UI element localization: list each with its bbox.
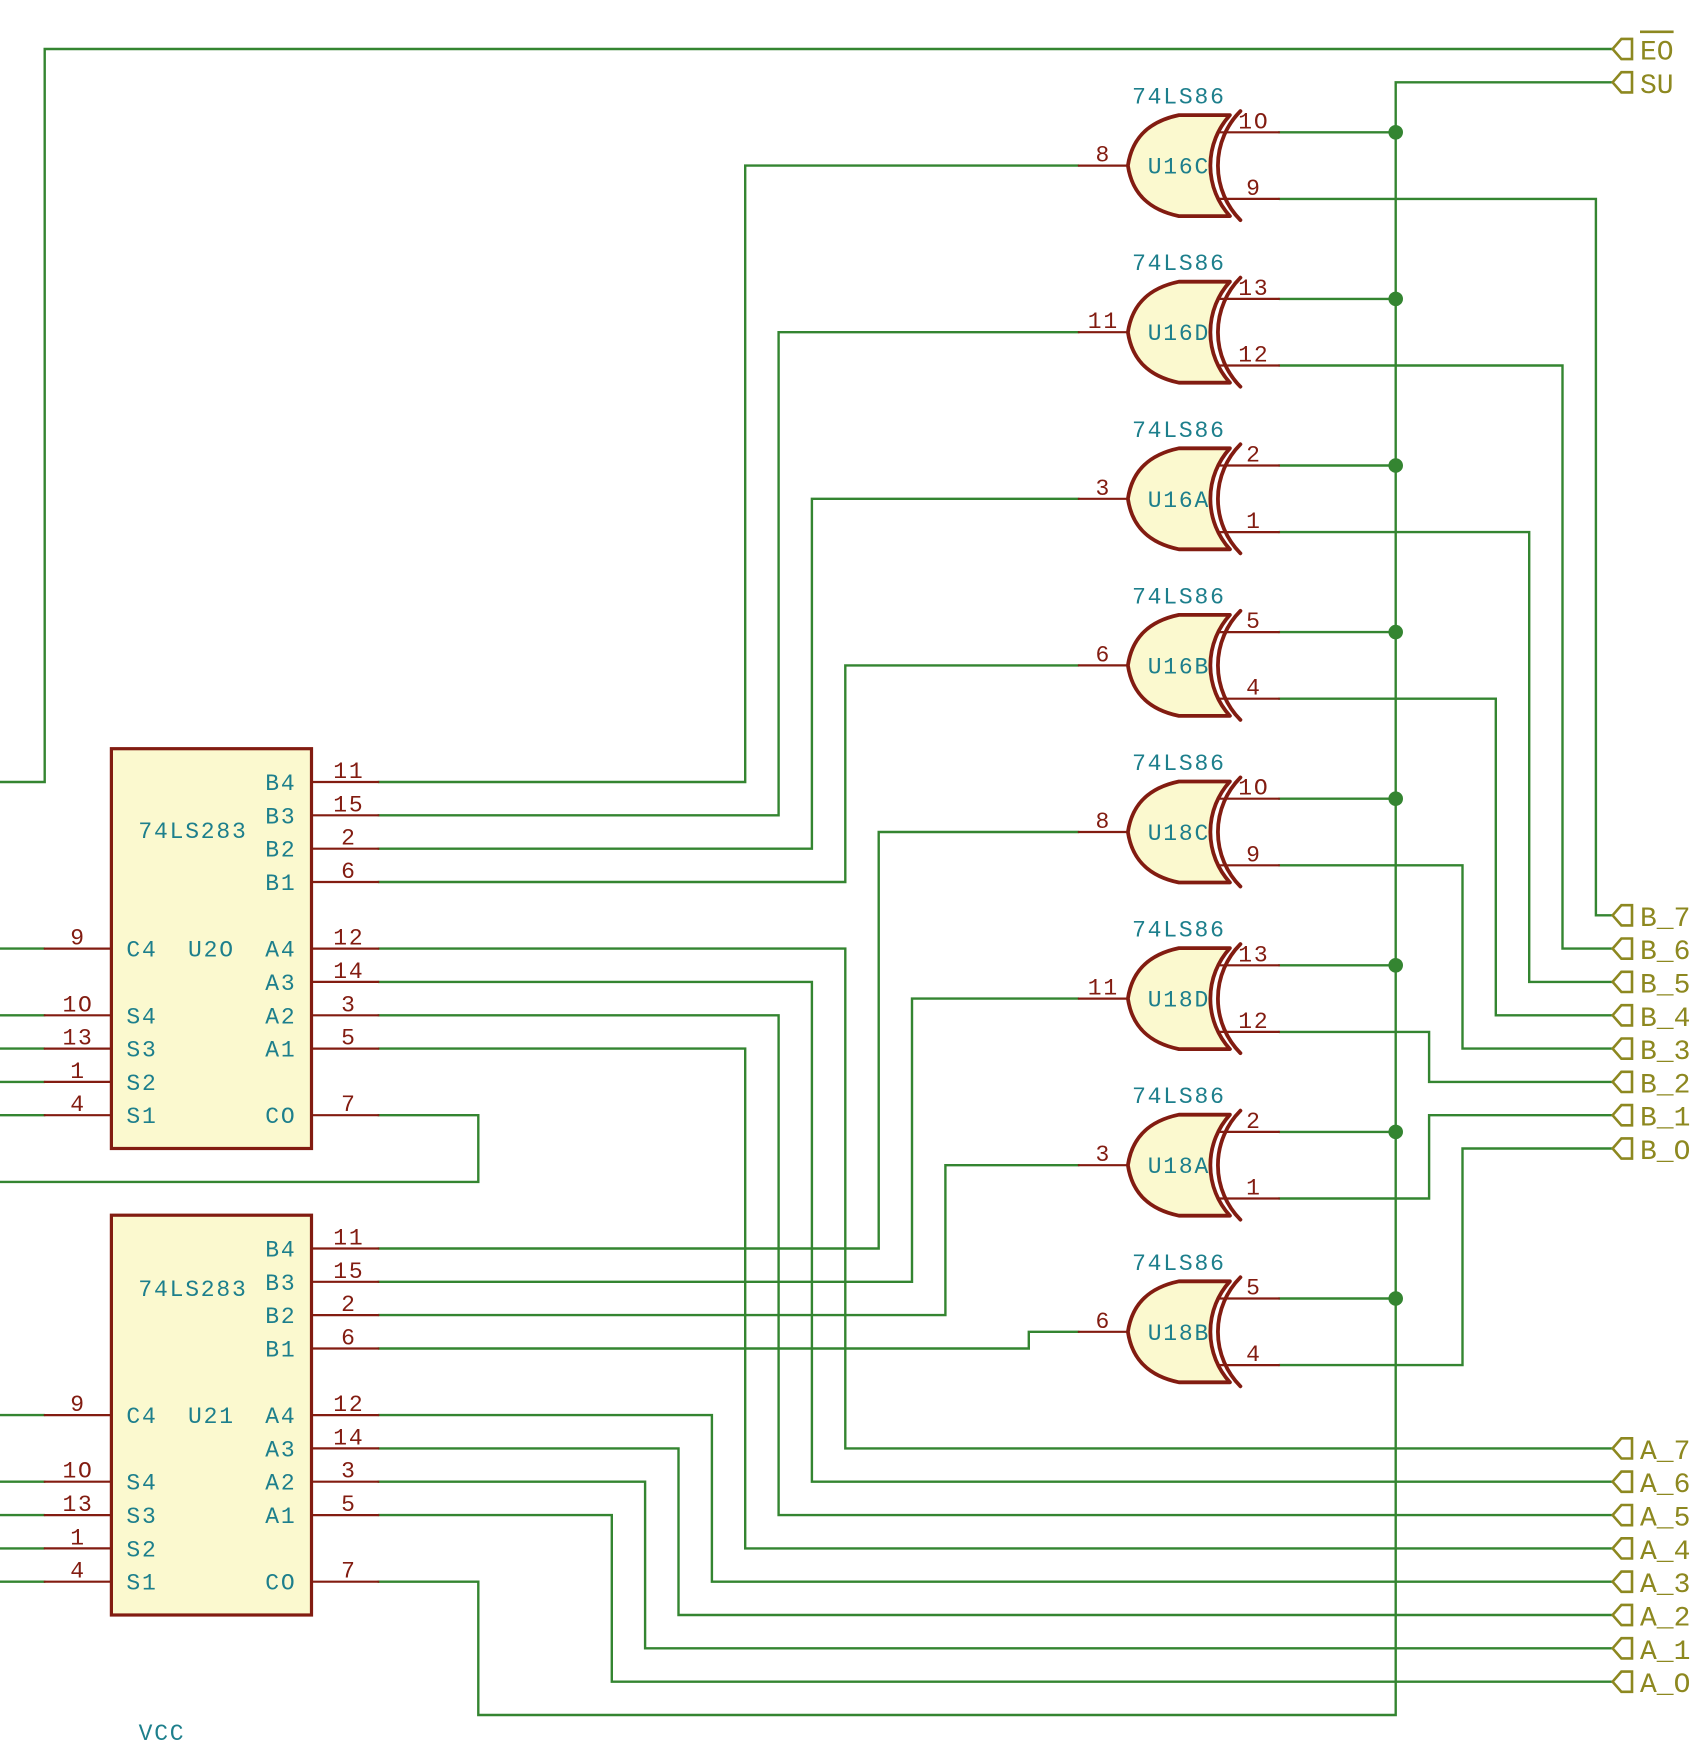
wire XOR U18B output to U21.B1: [378, 1332, 1079, 1349]
svg-text:74LS283: 74LS283: [138, 1277, 247, 1303]
wire U18C top input to SU bus: [1279, 798, 1396, 800]
svg-text:74LS86: 74LS86: [1132, 584, 1226, 610]
junction SU bus at U16B: [1388, 625, 1403, 640]
wire B_2 net: [1279, 1032, 1613, 1082]
svg-text:3: 3: [341, 1459, 357, 1485]
svg-text:9: 9: [70, 926, 86, 952]
svg-text:2: 2: [341, 1292, 357, 1318]
pin U21.B4 (11): [265, 1226, 378, 1264]
svg-text:6: 6: [1096, 1309, 1112, 1335]
wire A_4 net: [378, 1049, 1612, 1549]
wire U20.S1 to left edge: [0, 1114, 45, 1116]
pin U20.B4 (11): [265, 759, 378, 797]
svg-text:B3: B3: [265, 804, 296, 830]
svg-text:3: 3: [1096, 1142, 1112, 1168]
svg-text:U18A: U18A: [1148, 1154, 1210, 1180]
svg-text:CO: CO: [265, 1104, 296, 1130]
pin U20.A3 (14): [265, 959, 378, 997]
hierarchical label B_7: [1613, 904, 1691, 935]
svg-text:1O: 1O: [1238, 109, 1269, 135]
pin U21.S2 (1): [45, 1525, 158, 1563]
XOR gate U18B 74LS86: [1079, 1251, 1279, 1387]
wire U20.C0 loop to left edge: [0, 1115, 478, 1182]
wire A_3 net: [378, 1415, 1612, 1582]
svg-text:1O: 1O: [1238, 776, 1269, 802]
svg-text:S4: S4: [126, 1471, 157, 1497]
svg-text:74LS86: 74LS86: [1132, 85, 1226, 111]
svg-text:B2: B2: [265, 1304, 296, 1330]
wire U16D top input to SU bus: [1279, 298, 1396, 300]
hierarchical label A_4: [1613, 1537, 1691, 1568]
svg-text:A4: A4: [265, 938, 296, 964]
svg-text:S2: S2: [126, 1537, 157, 1563]
svg-text:74LS86: 74LS86: [1132, 1251, 1226, 1277]
wire U21.S1 to left edge: [0, 1580, 45, 1582]
pin U20.B2 (2): [265, 826, 378, 864]
svg-text:A_4: A_4: [1640, 1537, 1690, 1568]
svg-text:B1: B1: [265, 871, 296, 897]
svg-text:1: 1: [70, 1525, 86, 1551]
svg-text:B_2: B_2: [1640, 1070, 1690, 1101]
junction SU bus at U18C: [1388, 791, 1403, 806]
pin U20.B3 (15): [265, 792, 378, 830]
svg-text:A_7: A_7: [1640, 1437, 1690, 1468]
svg-text:1O: 1O: [62, 1459, 93, 1485]
svg-text:U16C: U16C: [1148, 155, 1210, 181]
svg-text:B2: B2: [265, 838, 296, 864]
svg-text:S3: S3: [126, 1504, 157, 1530]
svg-text:A2: A2: [265, 1004, 296, 1030]
wire U21.S4 to left edge: [0, 1480, 45, 1482]
svg-text:14: 14: [333, 1425, 364, 1451]
svg-text:74LS86: 74LS86: [1132, 251, 1226, 277]
svg-text:A2: A2: [265, 1471, 296, 1497]
svg-text:B_5: B_5: [1640, 970, 1690, 1001]
wire XOR output to U20.B2: [378, 499, 1079, 849]
svg-text:A4: A4: [265, 1404, 296, 1430]
svg-text:74LS86: 74LS86: [1132, 918, 1226, 944]
wire U20.S3 to left edge: [0, 1047, 45, 1049]
wire B_3 net: [1279, 865, 1613, 1048]
pin U20.B1 (6): [265, 859, 378, 897]
wire U18D top input to SU bus: [1279, 964, 1396, 966]
wire U18A top input to SU bus: [1279, 1131, 1396, 1133]
svg-text:5: 5: [341, 1492, 357, 1518]
hierarchical label B_1: [1613, 1104, 1691, 1135]
wire B_1 net: [1279, 1115, 1613, 1198]
wire A_6 net: [378, 982, 1612, 1482]
hierarchical label A_2: [1613, 1604, 1691, 1635]
junction SU bus at U16D: [1388, 292, 1403, 307]
svg-text:B_1: B_1: [1640, 1104, 1690, 1135]
svg-text:B_3: B_3: [1640, 1037, 1690, 1068]
wire U21.S2 to left edge: [0, 1547, 45, 1549]
svg-text:4: 4: [1246, 676, 1262, 702]
svg-text:B_6: B_6: [1640, 937, 1690, 968]
svg-text:74LS86: 74LS86: [1132, 418, 1226, 444]
svg-text:U21: U21: [188, 1404, 235, 1430]
svg-text:S3: S3: [126, 1038, 157, 1064]
svg-text:5: 5: [1246, 609, 1262, 635]
svg-text:9: 9: [1246, 176, 1262, 202]
svg-text:1: 1: [1246, 1176, 1262, 1202]
svg-text:11: 11: [1088, 309, 1119, 335]
XOR gate U16D 74LS86: [1079, 251, 1279, 387]
wire A_0 net: [378, 1515, 1612, 1682]
IC U20 74LS283 4-bit adder: [111, 749, 311, 1149]
svg-text:B4: B4: [265, 771, 296, 797]
pin U21.C0 (7): [265, 1559, 378, 1597]
svg-text:A1: A1: [265, 1504, 296, 1530]
hierarchical label A_6: [1613, 1470, 1691, 1501]
hierarchical label A_5: [1613, 1504, 1691, 1535]
svg-text:5: 5: [1246, 1276, 1262, 1302]
hierarchical label B_0: [1613, 1137, 1691, 1168]
svg-text:2: 2: [341, 826, 357, 852]
svg-text:4: 4: [1246, 1342, 1262, 1368]
hierarchical label EO: [1613, 32, 1674, 69]
svg-text:CO: CO: [265, 1571, 296, 1597]
svg-text:4: 4: [70, 1092, 86, 1118]
pin U20.A4 (12): [265, 926, 378, 964]
svg-text:2: 2: [1246, 1109, 1262, 1135]
pin U20.C4 (9): [45, 926, 158, 964]
XOR gate U16A 74LS86: [1079, 418, 1279, 554]
wire B_6 net: [1279, 366, 1613, 949]
wire B_5 net: [1279, 532, 1613, 982]
svg-text:12: 12: [1238, 343, 1269, 369]
svg-text:12: 12: [1238, 1009, 1269, 1035]
junction SU bus at U18B: [1388, 1291, 1403, 1306]
pin U21.B3 (15): [265, 1259, 378, 1297]
pin U21.A4 (12): [265, 1392, 378, 1430]
wire XOR output to U21.B4: [378, 832, 1079, 1249]
svg-text:6: 6: [1096, 642, 1112, 668]
pin U21.A3 (14): [265, 1425, 378, 1463]
svg-text:U2O: U2O: [188, 938, 235, 964]
svg-text:9: 9: [70, 1392, 86, 1418]
svg-text:SU: SU: [1640, 71, 1674, 102]
XOR gate U16C 74LS86: [1079, 85, 1279, 221]
hierarchical label B_3: [1613, 1037, 1691, 1068]
svg-text:1: 1: [1246, 509, 1262, 535]
svg-text:B3: B3: [265, 1271, 296, 1297]
wire EO net: [0, 49, 1613, 782]
hierarchical label B_2: [1613, 1070, 1691, 1101]
svg-text:11: 11: [1088, 976, 1119, 1002]
wire B_4 net: [1279, 699, 1613, 1016]
wire A_1 net: [378, 1482, 1612, 1649]
svg-text:B1: B1: [265, 1338, 296, 1364]
svg-text:S4: S4: [126, 1004, 157, 1030]
wire XOR output to U20.B4: [378, 166, 1079, 782]
svg-text:1: 1: [70, 1059, 86, 1085]
svg-text:A_3: A_3: [1640, 1570, 1690, 1601]
wire U20.S2 to left edge: [0, 1081, 45, 1083]
svg-text:S1: S1: [126, 1104, 157, 1130]
svg-text:6: 6: [341, 859, 357, 885]
pin U20.S1 (4): [45, 1092, 158, 1130]
svg-text:U18D: U18D: [1148, 988, 1210, 1014]
XOR gate U18D 74LS86: [1079, 918, 1279, 1054]
wire SU net vertical bus: [378, 82, 1612, 1715]
XOR gate U18A 74LS86: [1079, 1084, 1279, 1220]
svg-text:EO: EO: [1640, 38, 1674, 69]
pin U21.S1 (4): [45, 1559, 158, 1597]
pin U21.B1 (6): [265, 1326, 378, 1364]
IC U21 74LS283 4-bit adder: [111, 1215, 311, 1615]
hierarchical label A_7: [1613, 1437, 1691, 1468]
pin U21.S4 (10): [45, 1459, 158, 1497]
pin U20.S2 (1): [45, 1059, 158, 1097]
svg-text:VCC: VCC: [139, 1721, 186, 1744]
svg-text:13: 13: [1238, 276, 1269, 302]
svg-text:13: 13: [62, 1026, 93, 1052]
svg-text:3: 3: [341, 992, 357, 1018]
wire A_7 net: [378, 949, 1612, 1449]
pin U20.A1 (5): [265, 1026, 378, 1064]
svg-text:8: 8: [1096, 809, 1112, 835]
svg-text:14: 14: [333, 959, 364, 985]
junction SU bus at U18D: [1388, 958, 1403, 973]
wire U16C top input to SU bus: [1279, 131, 1396, 133]
svg-text:A_5: A_5: [1640, 1504, 1690, 1535]
svg-text:A_6: A_6: [1640, 1470, 1690, 1501]
junction SU bus at U18A: [1388, 1125, 1403, 1140]
svg-text:A_O: A_O: [1640, 1670, 1690, 1701]
svg-text:A3: A3: [265, 971, 296, 997]
svg-text:74LS86: 74LS86: [1132, 1084, 1226, 1110]
wire A_2 net: [378, 1448, 1612, 1615]
pin U20.A2 (3): [265, 992, 378, 1030]
svg-text:U16A: U16A: [1148, 488, 1210, 514]
wire XOR output to U21.B2: [378, 1165, 1079, 1315]
hierarchical label B_5: [1613, 970, 1691, 1001]
hierarchical label A_3: [1613, 1570, 1691, 1601]
junction SU bus at U16C: [1388, 125, 1403, 140]
wire U16B top input to SU bus: [1279, 631, 1396, 633]
svg-text:15: 15: [333, 792, 364, 818]
wire XOR output to U20.B1: [378, 665, 1079, 882]
svg-text:B4: B4: [265, 1238, 296, 1264]
svg-text:15: 15: [333, 1259, 364, 1285]
svg-text:3: 3: [1096, 476, 1112, 502]
svg-text:S1: S1: [126, 1571, 157, 1597]
hierarchical label A_0: [1613, 1670, 1691, 1701]
svg-text:A1: A1: [265, 1038, 296, 1064]
svg-text:74LS86: 74LS86: [1132, 751, 1226, 777]
junction SU bus at U16A: [1388, 458, 1403, 473]
svg-text:5: 5: [341, 1026, 357, 1052]
wire B_0 net: [1279, 1149, 1613, 1366]
svg-text:11: 11: [333, 1226, 364, 1252]
svg-text:13: 13: [62, 1492, 93, 1518]
svg-text:12: 12: [333, 926, 364, 952]
svg-text:B_O: B_O: [1640, 1137, 1690, 1168]
svg-text:A3: A3: [265, 1437, 296, 1463]
svg-text:6: 6: [341, 1326, 357, 1352]
svg-text:4: 4: [70, 1559, 86, 1585]
pin U20.C0 (7): [265, 1092, 378, 1130]
wire U21.S3 to left edge: [0, 1514, 45, 1516]
pin U21.S3 (13): [45, 1492, 158, 1530]
pin U21.A2 (3): [265, 1459, 378, 1497]
svg-text:U16B: U16B: [1148, 654, 1210, 680]
svg-text:U16D: U16D: [1148, 321, 1210, 347]
svg-text:13: 13: [1238, 942, 1269, 968]
hierarchical label A_1: [1613, 1637, 1691, 1668]
svg-text:U18C: U18C: [1148, 821, 1210, 847]
svg-text:S2: S2: [126, 1071, 157, 1097]
svg-text:11: 11: [333, 759, 364, 785]
hierarchical label SU: [1613, 71, 1674, 102]
svg-text:9: 9: [1246, 842, 1262, 868]
svg-text:2: 2: [1246, 443, 1262, 469]
hierarchical label B_4: [1613, 1004, 1691, 1035]
wire U16A top input to SU bus: [1279, 464, 1396, 466]
wire XOR output to U21.B3: [378, 999, 1079, 1282]
XOR gate U16B 74LS86: [1079, 584, 1279, 720]
svg-text:74LS283: 74LS283: [138, 819, 247, 845]
pin U21.A1 (5): [265, 1492, 378, 1530]
wire U20.S4 to left edge: [0, 1014, 45, 1016]
hierarchical label B_6: [1613, 937, 1691, 968]
pin U21.B2 (2): [265, 1292, 378, 1330]
svg-text:A_2: A_2: [1640, 1604, 1690, 1635]
svg-text:12: 12: [333, 1392, 364, 1418]
svg-text:C4: C4: [126, 938, 157, 964]
wire U18B top input to SU bus: [1279, 1297, 1396, 1299]
svg-text:1O: 1O: [62, 992, 93, 1018]
svg-text:B_4: B_4: [1640, 1004, 1690, 1035]
svg-text:7: 7: [341, 1092, 357, 1118]
pin U20.S3 (13): [45, 1026, 158, 1064]
wire XOR output to U20.B3: [378, 332, 1079, 815]
pin U20.S4 (10): [45, 992, 158, 1030]
wire B_7 net: [1279, 199, 1613, 915]
wire U21.C4 to left edge: [0, 1414, 45, 1416]
pin U21.C4 (9): [45, 1392, 158, 1430]
svg-text:7: 7: [341, 1559, 357, 1585]
svg-text:U18B: U18B: [1148, 1321, 1210, 1347]
XOR gate U18C 74LS86: [1079, 751, 1279, 887]
svg-text:A_1: A_1: [1640, 1637, 1690, 1668]
svg-text:B_7: B_7: [1640, 904, 1690, 935]
svg-text:8: 8: [1096, 143, 1112, 169]
wire U20.C4 to left edge: [0, 947, 45, 949]
wire A_5 net: [378, 1015, 1612, 1515]
svg-text:C4: C4: [126, 1404, 157, 1430]
